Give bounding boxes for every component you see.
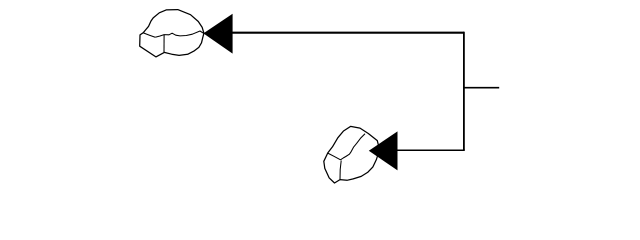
leader line: vertical [463,32,465,150]
leader line: bottom horizontal [397,149,465,151]
part 2 facet top edge [328,153,341,160]
arrow 2 (points left at part 2) [369,131,398,170]
part 1 outline (top-left cap) [140,10,204,57]
part 1 facet vertical edge [163,35,165,53]
leader line: top horizontal [232,32,465,34]
tick mark on vertical [464,87,499,89]
part 1 facet top edge [143,33,155,37]
part 2 outline (bottom cap, rotated view) [324,126,379,183]
arrow 1 (points left at part 1) [203,14,232,54]
part 2 facet vertical edge [340,161,341,180]
part 1 brim line [155,31,203,37]
part 2 brim line [341,134,366,160]
